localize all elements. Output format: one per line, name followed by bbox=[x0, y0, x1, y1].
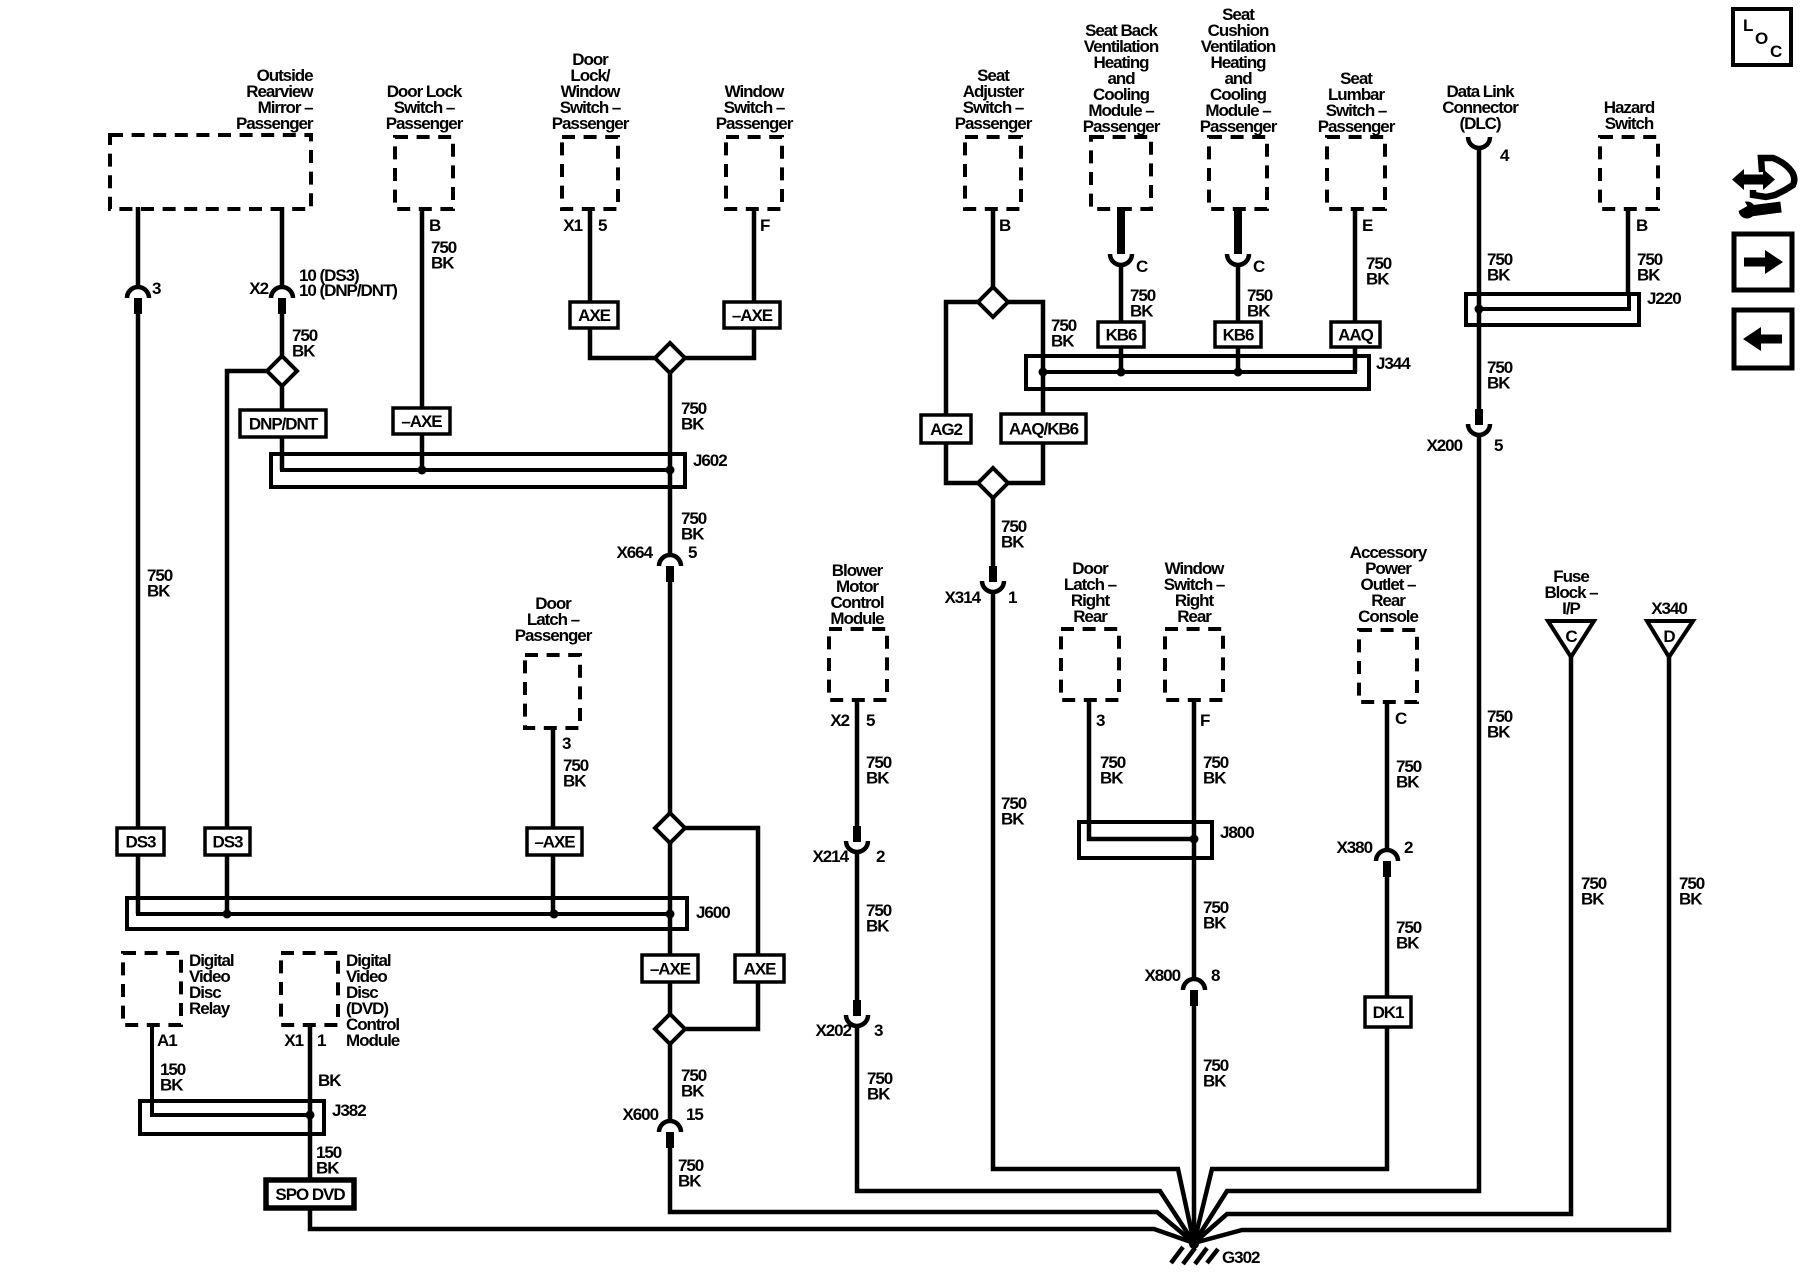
wire: AG2 down to merge diamond bbox=[946, 443, 978, 483]
wire: 750 BK down to X202 bbox=[855, 854, 860, 1000]
wire: DS3 branch into splice J600 bbox=[225, 855, 230, 914]
svg-text:Passenger: Passenger bbox=[552, 114, 630, 133]
splice J602 bbox=[271, 454, 685, 487]
svg-text:AXE: AXE bbox=[578, 306, 611, 325]
svg-text:AAQ: AAQ bbox=[1338, 326, 1373, 345]
svg-text:BK: BK bbox=[1366, 270, 1390, 289]
wire: trunk 750 BK from X664 down to branch diamond bbox=[668, 582, 673, 813]
fuse label AG2 bbox=[921, 415, 971, 443]
fuse label -AXE (door latch) bbox=[527, 828, 582, 855]
in-line connector X214 pin 2 bbox=[853, 826, 861, 842]
svg-text:3: 3 bbox=[152, 279, 161, 298]
fuse label DNP/DNT bbox=[240, 410, 326, 437]
svg-text:BK: BK bbox=[1001, 810, 1025, 829]
svg-text:BK: BK bbox=[1679, 890, 1703, 909]
fuse label KB6 (seat back) bbox=[1098, 322, 1144, 347]
component box: Digital Video Disc Relay bbox=[123, 953, 181, 1025]
wire: 750 BK to ground run bbox=[1194, 657, 1669, 1243]
wire: 750 BK long run to ground bbox=[1194, 437, 1479, 1243]
svg-text:Passenger: Passenger bbox=[1318, 117, 1396, 136]
svg-text:BK: BK bbox=[681, 525, 705, 544]
svg-text:5: 5 bbox=[688, 543, 697, 562]
svg-text:BK: BK bbox=[1487, 374, 1511, 393]
wire: 750 BK down to DK1 bbox=[1385, 877, 1390, 999]
svg-text:C: C bbox=[1395, 709, 1407, 728]
splice J600 bbox=[127, 898, 687, 929]
wire: 750 BK down to X314 bbox=[991, 498, 996, 566]
component box: Digital Video Disc (DVD) Control Module bbox=[281, 953, 338, 1025]
svg-text:BK: BK bbox=[1203, 1072, 1227, 1091]
svg-text:J800: J800 bbox=[1220, 823, 1254, 842]
svg-text:B: B bbox=[999, 216, 1011, 235]
svg-text:Passenger: Passenger bbox=[1200, 117, 1278, 136]
fuse label KB6 (seat cushion) bbox=[1215, 322, 1261, 347]
junction diamond (mirror X2 split) bbox=[267, 356, 297, 386]
svg-text:10 (DNP/DNT): 10 (DNP/DNT) bbox=[299, 281, 397, 300]
in-line connector X380 pin 2 bbox=[1376, 850, 1398, 861]
in-line connector (pin 3) bbox=[127, 287, 149, 298]
svg-text:DS3: DS3 bbox=[126, 833, 157, 852]
svg-text:BK: BK bbox=[1487, 266, 1511, 285]
svg-text:BK: BK bbox=[1051, 332, 1075, 351]
wire: 750 BK from X600 to ground run bbox=[670, 1148, 1194, 1243]
wire: 750 BK to KB6 bbox=[1236, 265, 1241, 324]
component box: Window Switch - Right Rear bbox=[1165, 629, 1223, 700]
wire: AAQ/KB6 down to merge diamond bbox=[1008, 443, 1043, 483]
wire: DNP/DNT into splice J602 bbox=[280, 437, 285, 470]
junction diamond (AXE/-AXE merge) bbox=[655, 343, 685, 373]
svg-text:AAQ/KB6: AAQ/KB6 bbox=[1009, 420, 1079, 439]
svg-text:O: O bbox=[1755, 29, 1768, 48]
wire: diamond branch left to second DS3 bbox=[227, 371, 268, 830]
svg-text:–AXE: –AXE bbox=[650, 960, 691, 979]
svg-text:BK: BK bbox=[318, 1071, 342, 1090]
svg-text:SPO DVD: SPO DVD bbox=[275, 1185, 345, 1204]
splice J344 bbox=[1026, 356, 1369, 389]
splice J382 bbox=[140, 1101, 324, 1134]
svg-text:1: 1 bbox=[1008, 588, 1017, 607]
svg-text:J382: J382 bbox=[332, 1101, 366, 1120]
wire: -AXE to junction diamond bbox=[685, 328, 754, 358]
fuse label SPO DVD bbox=[266, 1180, 354, 1208]
svg-text:B: B bbox=[429, 216, 441, 235]
ground G302 bbox=[1171, 1247, 1218, 1264]
svg-text:8: 8 bbox=[1211, 966, 1220, 985]
in-line connector X202 pin 3 bbox=[853, 1000, 861, 1016]
junction diamond (AXE/-AXE merge lower) bbox=[655, 1014, 685, 1044]
svg-text:X202: X202 bbox=[815, 1021, 851, 1040]
fuse label DK1 bbox=[1365, 997, 1411, 1027]
svg-text:X800: X800 bbox=[1144, 966, 1180, 985]
in-line connector X800 pin 8 bbox=[1183, 979, 1205, 990]
svg-text:BK: BK bbox=[866, 917, 890, 936]
svg-text:X380: X380 bbox=[1336, 838, 1372, 857]
svg-text:X200: X200 bbox=[1426, 436, 1462, 455]
svg-text:Passenger: Passenger bbox=[236, 114, 314, 133]
wire: pin B 750 BK down bbox=[420, 207, 425, 410]
svg-text:DS3: DS3 bbox=[213, 833, 244, 852]
fuse label -AXE (below J600) bbox=[642, 955, 698, 982]
fuse label AXE (door lock/window switch) bbox=[570, 302, 618, 328]
svg-text:C: C bbox=[1565, 627, 1577, 646]
wire: trunk 750 BK down to X600 bbox=[668, 1044, 673, 1122]
svg-text:5: 5 bbox=[598, 216, 607, 235]
wire: pin A1 150 BK into splice J382 bbox=[152, 1023, 310, 1115]
wire: pin 3 750 BK down bbox=[551, 726, 556, 830]
wire: KB6 into splice J344 bbox=[1119, 347, 1124, 372]
wire: 750 BK straight down to ground G302 bbox=[1192, 1006, 1197, 1244]
wire: AXE down and left to merge diamond bbox=[685, 982, 758, 1029]
svg-text:BK: BK bbox=[1130, 302, 1154, 321]
wire: 750 BK to KB6 bbox=[1119, 265, 1124, 324]
svg-text:Rear: Rear bbox=[1177, 607, 1212, 626]
svg-text:C: C bbox=[1136, 257, 1148, 276]
svg-text:X2: X2 bbox=[830, 711, 849, 730]
wire: mirror pin X2 down bbox=[280, 207, 285, 288]
svg-text:Passenger: Passenger bbox=[1083, 117, 1161, 136]
repair icon (arrow, outline, wrench) bbox=[1743, 175, 1764, 185]
fuse label AAQ/KB6 bbox=[1001, 414, 1086, 443]
wire: 750 BK to ground run bbox=[1194, 657, 1571, 1243]
svg-text:3: 3 bbox=[1096, 711, 1105, 730]
svg-text:Passenger: Passenger bbox=[716, 114, 794, 133]
junction diamond (seat adjuster merge) bbox=[978, 468, 1008, 498]
wire: KB6 into splice J344 bbox=[1236, 347, 1241, 372]
arrow previous page bbox=[1734, 310, 1792, 368]
svg-text:A1: A1 bbox=[157, 1031, 177, 1050]
wire: pin X1-5 down to AXE bbox=[588, 207, 593, 304]
svg-text:BK: BK bbox=[681, 415, 705, 434]
wire: trunk down through splice J600 to -AXE bbox=[668, 843, 673, 957]
svg-text:–AXE: –AXE bbox=[401, 412, 442, 431]
svg-text:Passenger: Passenger bbox=[386, 114, 464, 133]
svg-text:Passenger: Passenger bbox=[515, 626, 593, 645]
component box: Seat Back Ventilation Heating and Cooling Module - Passenger bbox=[1091, 137, 1151, 209]
svg-text:KB6: KB6 bbox=[1106, 326, 1137, 345]
svg-text:3: 3 bbox=[562, 734, 571, 753]
svg-text:Rear: Rear bbox=[1073, 607, 1108, 626]
fuse label DS3 (right) bbox=[205, 828, 250, 855]
svg-text:BK: BK bbox=[147, 582, 171, 601]
svg-text:BK: BK bbox=[681, 1082, 705, 1101]
wire: split left branch to AG2 bbox=[946, 302, 978, 417]
component box: Door Lock/Window Switch - Passenger bbox=[562, 137, 618, 209]
svg-text:BK: BK bbox=[1203, 769, 1227, 788]
svg-text:BK: BK bbox=[292, 342, 316, 361]
svg-text:E: E bbox=[1362, 216, 1373, 235]
wire: pin C 750 BK down to X380 bbox=[1385, 700, 1390, 851]
LOC legend box bbox=[1733, 9, 1791, 65]
svg-text:KB6: KB6 bbox=[1223, 326, 1254, 345]
svg-text:X1: X1 bbox=[284, 1031, 303, 1050]
svg-text:BK: BK bbox=[563, 772, 587, 791]
fuse label DS3 (left) bbox=[117, 828, 164, 855]
component box: Seat Lumbar Switch - Passenger bbox=[1327, 137, 1385, 209]
svg-text:Switch: Switch bbox=[1605, 114, 1654, 133]
component box: Door Latch - Right Rear bbox=[1061, 629, 1119, 700]
wire: pin E 750 BK to AAQ bbox=[1353, 207, 1358, 324]
wire: DK1 to ground run bbox=[1194, 1027, 1387, 1243]
svg-text:D: D bbox=[1663, 627, 1675, 646]
svg-text:BK: BK bbox=[431, 254, 455, 273]
pigtail connector pin C (seat cushion module) bbox=[1234, 207, 1242, 254]
wire: pin 3 750 BK into splice J800 bbox=[1089, 698, 1194, 839]
svg-text:BK: BK bbox=[1001, 533, 1025, 552]
svg-text:G302: G302 bbox=[1222, 1248, 1260, 1267]
wire: split right branch through J344 to AAQ/KB6 bbox=[1008, 302, 1043, 416]
wire: 750 BK long run to ground bbox=[993, 594, 1194, 1243]
svg-text:L: L bbox=[1743, 16, 1753, 35]
in-line connector X200 pin 5 bbox=[1475, 409, 1483, 425]
wire: AXE to junction diamond bbox=[590, 328, 655, 358]
wire: branch right to AXE bbox=[685, 828, 758, 957]
svg-text:X1: X1 bbox=[563, 216, 582, 235]
svg-text:C: C bbox=[1770, 42, 1782, 61]
component box: Accessory Power Outlet - Rear Console bbox=[1359, 630, 1417, 702]
svg-text:X600: X600 bbox=[622, 1105, 658, 1124]
arrow next page bbox=[1734, 234, 1792, 290]
wire: into splice J600 bbox=[136, 855, 141, 914]
component box: Outside Rearview Mirror - Passenger bbox=[110, 135, 311, 209]
wire: pin X2-5 750 BK down bbox=[855, 698, 860, 826]
svg-text:Passenger: Passenger bbox=[955, 114, 1033, 133]
svg-text:Console: Console bbox=[1358, 607, 1418, 626]
svg-text:BK: BK bbox=[1637, 266, 1661, 285]
fuse label -AXE (door lock switch) bbox=[393, 408, 450, 434]
svg-text:AG2: AG2 bbox=[930, 420, 962, 439]
fuse label AXE (below J600) bbox=[735, 955, 784, 982]
wire: -AXE down to merge diamond bbox=[668, 982, 673, 1014]
svg-text:X664: X664 bbox=[616, 543, 653, 562]
svg-text:2: 2 bbox=[1404, 838, 1413, 857]
wire: 750 BK down through J220 bbox=[1477, 148, 1482, 409]
svg-text:J344: J344 bbox=[1376, 354, 1411, 373]
wire: AAQ into splice J344 bbox=[1353, 347, 1358, 372]
svg-text:DK1: DK1 bbox=[1373, 1003, 1404, 1022]
svg-text:15: 15 bbox=[686, 1105, 703, 1124]
wire: X2 750 BK to junction diamond bbox=[280, 314, 285, 356]
wire: X2 trunk to DNP/DNT bbox=[280, 386, 285, 412]
junction diamond (seat adjuster split) bbox=[978, 287, 1008, 317]
splice J220 bbox=[1466, 294, 1639, 325]
svg-text:BK: BK bbox=[1396, 934, 1420, 953]
svg-text:J602: J602 bbox=[693, 451, 727, 470]
svg-text:Relay: Relay bbox=[189, 999, 231, 1018]
svg-text:X2: X2 bbox=[249, 279, 268, 298]
svg-text:2: 2 bbox=[876, 847, 885, 866]
wire: pin B down to split diamond bbox=[991, 207, 996, 287]
svg-text:J600: J600 bbox=[696, 903, 730, 922]
svg-text:I/P: I/P bbox=[1562, 599, 1580, 618]
wire: mirror pin 3 down to connector bbox=[136, 207, 141, 288]
svg-text:BK: BK bbox=[1247, 302, 1271, 321]
wire: pin F 750 BK down through J800 bbox=[1192, 698, 1197, 980]
svg-text:BK: BK bbox=[678, 1172, 702, 1191]
svg-text:5: 5 bbox=[1494, 436, 1503, 455]
in-line connector X314 pin 1 bbox=[989, 566, 997, 582]
svg-text:(DLC): (DLC) bbox=[1459, 114, 1500, 133]
svg-text:BK: BK bbox=[1487, 723, 1511, 742]
svg-text:BK: BK bbox=[1396, 773, 1420, 792]
wire: pin F down to -AXE bbox=[752, 207, 757, 304]
svg-text:BK: BK bbox=[866, 769, 890, 788]
svg-text:B: B bbox=[1636, 216, 1648, 235]
svg-text:J220: J220 bbox=[1647, 289, 1681, 308]
svg-text:BK: BK bbox=[1203, 914, 1227, 933]
svg-text:1: 1 bbox=[317, 1031, 326, 1050]
svg-text:BK: BK bbox=[867, 1085, 891, 1104]
fuse label AAQ bbox=[1331, 322, 1380, 347]
in-line connector X600 pin 15 bbox=[659, 1121, 681, 1132]
component box: Door Lock Switch - Passenger bbox=[395, 137, 453, 209]
component box: Blower Motor Control Module bbox=[829, 629, 887, 700]
svg-text:DNP/DNT: DNP/DNT bbox=[249, 415, 319, 434]
svg-text:5: 5 bbox=[866, 711, 875, 730]
svg-text:Module: Module bbox=[346, 1031, 400, 1050]
svg-text:X314: X314 bbox=[944, 588, 981, 607]
component box: Window Switch - Passenger bbox=[726, 137, 782, 209]
component box: Seat Adjuster Switch - Passenger bbox=[965, 137, 1021, 209]
wire: -AXE into splice J602 bbox=[420, 434, 425, 470]
svg-text:F: F bbox=[1200, 711, 1210, 730]
svg-text:X340: X340 bbox=[1651, 599, 1687, 618]
component box: Seat Cushion Ventilation Heating and Cooling Module - Passenger bbox=[1209, 137, 1267, 209]
pigtail connector pin C (seat back module) bbox=[1117, 207, 1125, 254]
svg-text:BK: BK bbox=[1100, 769, 1124, 788]
svg-text:C: C bbox=[1253, 257, 1265, 276]
in-line connector X2 bbox=[271, 287, 293, 298]
splice J800 bbox=[1079, 822, 1212, 858]
wire: pin B 750 BK into splice J220 bbox=[1626, 207, 1631, 296]
fuse label -AXE (window switch) bbox=[724, 302, 780, 328]
wire: -AXE into splice J600 bbox=[551, 855, 556, 914]
svg-text:AXE: AXE bbox=[744, 960, 777, 979]
svg-text:–AXE: –AXE bbox=[534, 833, 575, 852]
svg-text:3: 3 bbox=[874, 1021, 883, 1040]
svg-text:BK: BK bbox=[1581, 890, 1605, 909]
svg-text:BK: BK bbox=[316, 1159, 340, 1178]
svg-text:BK: BK bbox=[160, 1076, 184, 1095]
component box: Door Latch - Passenger bbox=[525, 655, 580, 728]
component box: Hazard Switch bbox=[1600, 137, 1658, 209]
wire: trunk 750 BK down into splice J602 bbox=[668, 373, 673, 556]
wire: pin X1-1 BK down through J382 to SPO DVD bbox=[308, 1023, 313, 1182]
svg-text:X214: X214 bbox=[812, 847, 849, 866]
svg-text:–AXE: –AXE bbox=[732, 306, 773, 325]
in-line connector X664 pin 5 bbox=[659, 555, 681, 566]
wire: 750 BK to ground run bbox=[857, 1028, 1194, 1243]
svg-text:F: F bbox=[760, 216, 770, 235]
wire: pin-3 circuit 750 BK down to DS3 bbox=[136, 314, 141, 830]
wire: SPO DVD 150 BK to ground run bbox=[310, 1208, 1194, 1243]
svg-text:Module: Module bbox=[830, 609, 884, 628]
